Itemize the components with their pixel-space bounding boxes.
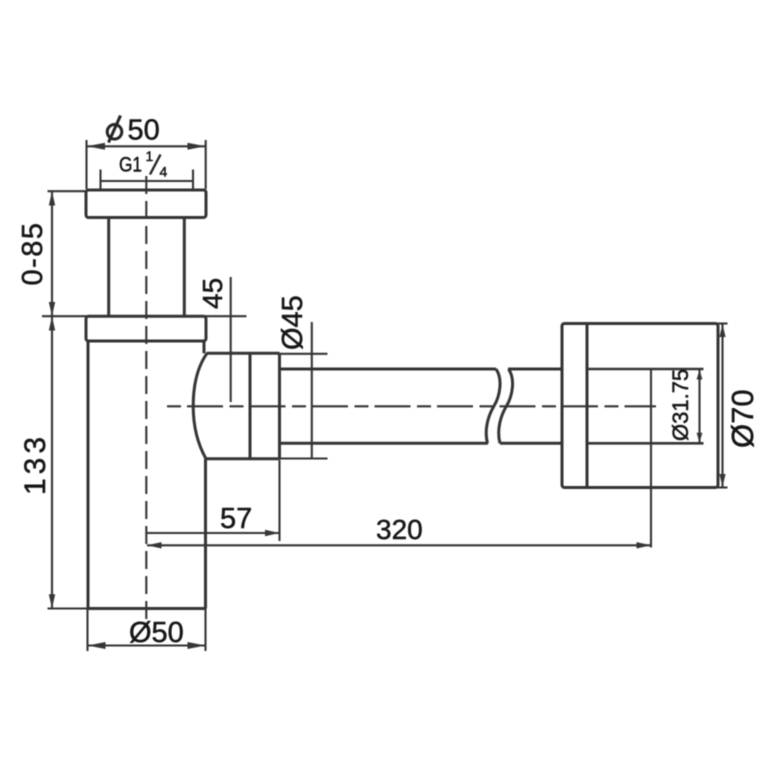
wall flange divider (586, 324, 589, 488)
body right edge upper (203, 341, 206, 353)
outlet stub top edge (207, 352, 280, 355)
outlet pipe bottom edge left (280, 442, 489, 445)
pipe break curve right (499, 369, 513, 443)
extension line ø45 top (280, 353, 328, 355)
cylinder intersection arc (193, 353, 207, 459)
svg-text:4: 4 (160, 164, 168, 180)
fraction slash (150, 155, 161, 175)
dimension line 0-85 (51, 191, 53, 316)
extension line 57 right (278, 460, 280, 541)
arrowheads 320 (147, 542, 651, 548)
dimension label ø50 top (128, 115, 160, 147)
dimension label ø45 (277, 295, 309, 350)
dimension label 320 (376, 514, 423, 545)
dimension label 57 (220, 503, 252, 535)
svg-text:Ø70: Ø70 (725, 389, 760, 448)
diameter symbol top (107, 116, 122, 143)
thread label G1 1/4 (119, 148, 168, 180)
dimension label 133 (19, 433, 52, 495)
dimension line ø45 (311, 322, 313, 459)
dimension label ø50 bottom (129, 617, 184, 649)
extension line body flange top (42, 315, 247, 317)
outlet pipe bottom edge right (500, 442, 562, 445)
pipe break curve left (486, 369, 500, 443)
arrowheads 133 (49, 316, 55, 608)
arrowheads ø70 (719, 324, 725, 487)
pipe centerline horizontal (167, 405, 656, 407)
body right edge lower (204, 459, 207, 609)
wall flange outline (562, 324, 718, 488)
extension line top of flange (0-85) (48, 190, 87, 192)
body flange outline (86, 316, 206, 341)
body centerline vertical (145, 176, 147, 620)
svg-text:45: 45 (197, 278, 228, 309)
arrowheads ø31.75 (697, 370, 703, 443)
dimension line 57 (147, 532, 280, 534)
nut left edge (249, 353, 252, 459)
body bottom edge (87, 607, 206, 610)
nut right edge (278, 353, 281, 459)
svg-text:Ø31.75: Ø31.75 (668, 369, 693, 441)
dimension line ø50 top (87, 140, 206, 189)
svg-text:320: 320 (376, 514, 423, 545)
extension line body bottom left (48, 607, 89, 609)
outlet pipe top edge left (280, 368, 497, 371)
top flange outline (86, 190, 206, 218)
dimension line 133 (51, 316, 53, 608)
dimension label ø31.75 (668, 369, 693, 441)
inlet pipe left edge (107, 218, 110, 317)
extension line 320 right (650, 370, 652, 548)
dimension line 320 (147, 544, 651, 546)
extension line ø45 bottom (280, 457, 328, 459)
extension line ø70 top (718, 322, 728, 324)
arrowheads ø50 top (87, 143, 206, 150)
outlet pipe top edge right (508, 368, 562, 371)
inner pipe bottom edge (587, 442, 704, 445)
thread extent line G1 1/4 (101, 170, 194, 190)
svg-text:50: 50 (128, 115, 160, 147)
outlet stub bottom edge (206, 457, 280, 460)
dimension line 45 (230, 277, 232, 402)
extension line ø70 bottom (718, 486, 728, 488)
inlet pipe right edge (183, 218, 186, 317)
svg-text:Ø45: Ø45 (277, 295, 309, 350)
extension line ø50 bottom right (204, 609, 206, 652)
svg-text:1: 1 (146, 148, 154, 164)
dimension label 45 (197, 278, 228, 309)
arrowheads 0-85 (49, 191, 55, 316)
dimension line ø50 bottom (88, 644, 206, 646)
body left edge (87, 341, 90, 609)
dimension label ø70 (725, 389, 760, 448)
inner pipe top edge (587, 368, 704, 371)
arrowheads ø50 bottom (88, 642, 206, 649)
dimension line ø70 (721, 324, 723, 488)
arrowheads 57 (265, 530, 280, 536)
dimension line ø31.75 (698, 369, 700, 443)
dimension label 0-85 (17, 221, 49, 285)
svg-text:Ø50: Ø50 (129, 617, 184, 649)
extension line ø50 bottom left (86, 609, 88, 652)
svg-text:G1: G1 (119, 154, 142, 177)
svg-text:133: 133 (19, 433, 52, 495)
svg-text:57: 57 (220, 503, 252, 535)
svg-text:0-85: 0-85 (17, 221, 49, 285)
